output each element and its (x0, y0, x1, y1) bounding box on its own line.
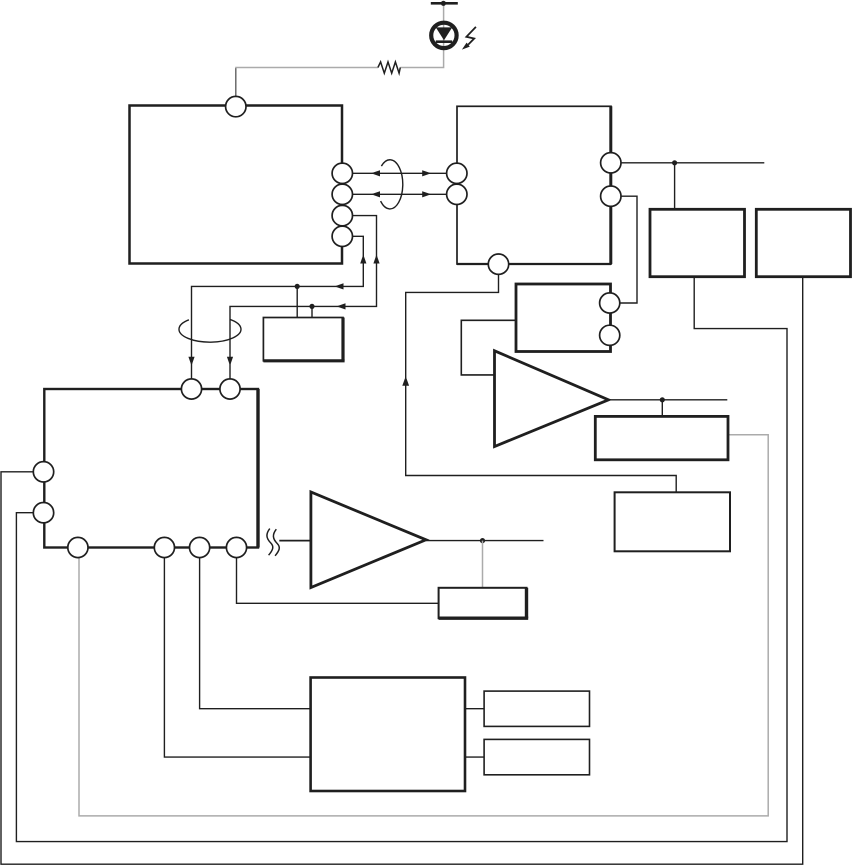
squiggle break symbol 2 (273, 529, 279, 556)
pin U1 right 2 (332, 184, 352, 204)
box U10 (595, 416, 728, 459)
pin U2 left 1 (33, 462, 53, 482)
pin U2 bottom 1 (68, 537, 88, 557)
box U2 (lower-left IC) (44, 389, 258, 548)
LED D1 triangle (436, 27, 452, 40)
pin U1 right 1 (332, 163, 352, 183)
wire U3 right pin 2 to U8 pin (610, 196, 637, 303)
amp A2 triangle (311, 492, 426, 588)
arrowhead left on wire y=306 (337, 303, 346, 309)
arrowhead left wire2 (371, 191, 380, 197)
pin U1 right 4 (332, 226, 352, 246)
pin U2 left 2 (33, 503, 53, 523)
pin U2 bottom 3 (190, 537, 210, 557)
arrowhead up on x=376.5 (373, 255, 379, 264)
wire amp A2 input (279, 540, 311, 542)
pin U3 left 2 (447, 184, 467, 204)
wire U2 bottom pin 2 to box U12 (164, 548, 310, 758)
wire U2 bottom pin 4 to box U11 (237, 548, 439, 604)
pin U3 right 2 (601, 186, 621, 206)
box U2 right shadow (256, 389, 259, 548)
node dot wire2 (309, 304, 314, 309)
stub U12 to U14 (465, 756, 484, 758)
wire U6 bottom loop to U2 left pin 2 (16, 277, 787, 842)
pin U8 right 2 (600, 325, 620, 345)
box U3 bottom edge (457, 263, 611, 265)
box U8 (middle box) (516, 284, 611, 352)
box U11 bottom shadow (439, 617, 529, 620)
wire pin3 of U1 to node B (230, 216, 377, 389)
gray feedback loop U10 to U2 pin AGC (79, 435, 768, 816)
box U5 (partially hidden filter box behind amp) (461, 320, 516, 375)
box U9 (615, 492, 730, 551)
box U11 right shadow (525, 588, 528, 618)
gray wire resistor to LED (400, 5, 443, 68)
node dot A1 output (660, 397, 665, 402)
node dot A2 output (480, 538, 485, 543)
stub U12 to U13 (465, 708, 484, 710)
pin U8 right 1 (600, 293, 620, 313)
gray stub A2 output to U11 (482, 541, 484, 588)
wire pin4 of U1 to node A (192, 236, 364, 389)
stub to box U10 (661, 400, 663, 417)
LED D1 ring (431, 23, 456, 48)
wire amp A2 output (426, 540, 544, 542)
box U4 bottom shadow (263, 359, 344, 362)
amp A1 triangle (495, 351, 609, 447)
arrowhead up on x=405.7 (402, 376, 409, 386)
pin U2 bottom 2 (154, 537, 174, 557)
pin U2 top 1 (181, 379, 201, 399)
LED emission lightning arrow (466, 27, 476, 45)
arrowhead down to U2 pin 2 (227, 357, 233, 366)
arrowhead right wire2 (422, 191, 431, 197)
squiggle break symbol 1 (267, 529, 273, 556)
box U3 right shadow edge (609, 106, 612, 264)
box U1 (encoder/decoder IC, top-left) (130, 106, 343, 264)
LED lightning arrowhead (462, 43, 470, 50)
arrowhead down to U2 pin 1 (188, 357, 194, 366)
box U12 (bottom big box) (311, 678, 465, 792)
node dot top right (672, 160, 677, 165)
wire amp A1 output (609, 399, 728, 401)
box U13 (484, 691, 589, 726)
resistor R1 (378, 62, 400, 73)
power rail dot (441, 1, 446, 6)
pin U2 bottom 4 (226, 537, 246, 557)
dark stub from U1 LEDA pin up (235, 68, 237, 107)
box U11 (439, 588, 527, 618)
pin U1 right 3 (332, 205, 352, 225)
box U6 (650, 209, 745, 276)
arrowhead right wire1 (422, 170, 431, 176)
stub to box U6 (674, 163, 676, 210)
power rail bar (431, 2, 458, 5)
wire RXD pair 2 (bidirectional) (342, 193, 457, 195)
gray wire VCC to LED anode (235, 67, 378, 69)
cable loop upper (twisted pair symbol) (381, 160, 403, 209)
box U7 (756, 209, 850, 276)
box U4 right shadow (341, 318, 344, 361)
pin U2 top 2 (220, 379, 240, 399)
wire U3 bottom pin from U9 (long feedback with up arrow) (406, 264, 677, 492)
pin U3 right 1 (601, 153, 621, 173)
box U14 (484, 739, 589, 774)
pin U3 bottom (488, 254, 508, 274)
wire TXD pair 1 (bidirectional) (342, 172, 457, 174)
stub U4 output 1 (296, 286, 298, 317)
box U3 (controller IC, top-right) (457, 106, 611, 264)
arrowhead left wire1 (371, 170, 380, 176)
arrowhead up on x=363.3 (360, 255, 366, 264)
pin U3 left 1 (447, 163, 467, 183)
node dot wire1 (295, 284, 300, 289)
pin U1 top (LEDA) (226, 96, 246, 116)
arrowhead left on wire y=286 (335, 283, 344, 289)
wire U7 bottom loop to U2 left pin 1 (1, 277, 803, 865)
wire U2 bottom pin 3 to box U12 (200, 548, 311, 709)
stub U4 output 2 (311, 306, 313, 317)
LED D1 cathode bar (436, 40, 452, 43)
wire U3 right pin 1 output (611, 162, 765, 164)
cable loop lower (179, 319, 241, 342)
box U4 (mid-left small box) (263, 318, 343, 361)
